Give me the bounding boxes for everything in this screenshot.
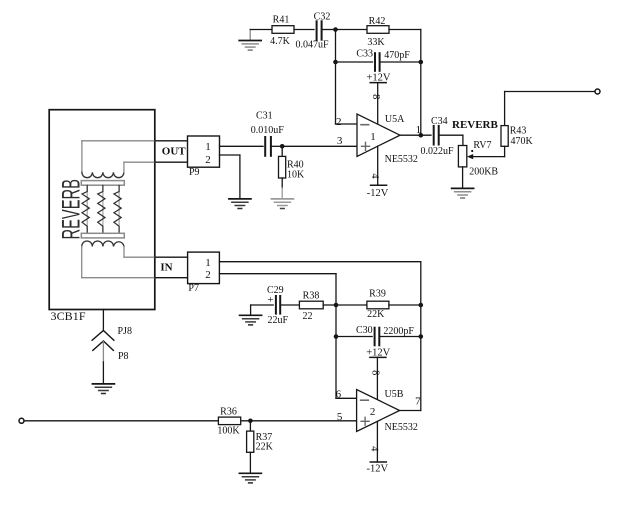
node C30 left [334,334,339,339]
svg-text:R42: R42 [369,16,386,27]
wire C31 to node [272,145,282,147]
resistor R41 [270,15,294,47]
svg-text:NE5532: NE5532 [385,154,418,165]
wire P9 pin2 to ground [220,155,240,199]
wire pin 2 U5A [336,123,358,125]
terminal input [19,418,24,423]
svg-text:R38: R38 [303,290,320,301]
svg-text:6: 6 [336,388,342,400]
svg-text:R36: R36 [220,407,237,418]
wire C34 to RV7 [440,135,463,145]
svg-text:NE5532: NE5532 [385,422,418,433]
ground RV7 [452,188,474,198]
svg-text:4: 4 [369,173,380,179]
tank post 3 [118,185,120,233]
tank output coil L1 [82,141,155,178]
tank spring 3 [114,185,121,233]
capacitor C30 [336,325,421,346]
svg-text:C34: C34 [431,116,448,127]
svg-text:0.010uF: 0.010uF [251,125,284,136]
power -12V U5B [367,421,389,474]
wire tank IN to P7 [155,257,188,278]
svg-text:2: 2 [336,116,342,128]
svg-text:2: 2 [205,269,211,281]
svg-text:C30: C30 [356,325,373,336]
ground P9 pin2 [229,199,251,209]
svg-text:0.047uF: 0.047uF [295,40,329,51]
wire R38 to node [323,304,336,306]
wire left feedback rail [335,30,337,125]
wire input to R36 [24,420,218,422]
ground R37 [239,473,261,483]
svg-text:+12V: +12V [366,72,390,83]
resistor R36 [217,407,240,437]
node right rail / C33 [419,60,424,65]
svg-text:3: 3 [337,135,343,147]
svg-text:100K: 100K [217,425,240,436]
wire R41 to C32 [294,29,314,31]
capacitor C34 [421,116,455,157]
svg-text:8: 8 [370,94,381,99]
wire pin 6 U5B [336,397,357,399]
wire junction to R42 [336,29,368,31]
svg-text:P7: P7 [188,283,199,294]
wire R42 to right rail [389,29,421,31]
svg-text:3CB1F: 3CB1F [51,309,86,323]
svg-text:R41: R41 [273,15,290,26]
ground top-left [239,30,261,51]
connector P7 [188,252,220,294]
svg-text:U5A: U5A [385,114,405,125]
svg-text:1: 1 [370,131,376,143]
capacitor C32 [295,12,335,51]
tank core bar bottom [81,233,124,238]
capacitor C29 [251,285,289,326]
svg-text:2200pF: 2200pF [383,326,414,337]
svg-text:7: 7 [415,396,421,408]
svg-text:+: + [267,294,273,306]
wire to output terminal [505,91,595,93]
svg-text:2: 2 [370,406,376,418]
power -12V U5A [367,146,389,199]
svg-text:22: 22 [303,311,313,322]
resistor R38 [299,290,323,322]
svg-text:REVERB: REVERB [58,179,86,240]
svg-text:R39: R39 [369,289,386,300]
resistor R43 [501,92,534,157]
svg-text:10K: 10K [287,169,305,180]
svg-text:P8: P8 [118,351,129,362]
wire output pin7 U5B [400,410,421,412]
svg-text:470pF: 470pF [384,50,410,61]
tank spring 1 [82,185,89,233]
svg-text:8: 8 [370,370,381,375]
wire tank OUT to P9 [155,141,188,162]
power +12V U5B [366,347,390,399]
tank spring 2 [98,185,105,233]
resistor R40 [279,146,306,199]
node C30 right [419,334,424,339]
potentiometer RV7 [458,140,504,178]
op-amp U5B [357,389,418,433]
connector PJ8 [92,310,132,341]
svg-text:U5B: U5B [385,389,404,400]
terminal output [595,89,600,94]
svg-text:C32: C32 [314,12,331,23]
svg-text:4.7K: 4.7K [270,36,291,47]
wire P9 pin1 to C31 [220,145,264,147]
tank input coil L2 [82,241,155,278]
node R40 junction [280,144,285,149]
capacitor C33 [356,49,410,71]
svg-text:22K: 22K [367,309,385,320]
node: C32/R42 junction [333,27,338,32]
svg-text:P9: P9 [189,167,200,178]
ground C29 [240,315,262,325]
op-amp U5A [357,114,418,165]
svg-text:1: 1 [205,141,211,153]
svg-text:OUT: OUT [162,146,187,158]
svg-text:5: 5 [337,411,343,423]
svg-text:4: 4 [369,446,380,452]
wire C33 right [381,61,421,63]
wire C29 to R38 [281,304,299,306]
wire right feedback rail [420,30,422,136]
tank core bar top [81,181,124,186]
svg-text:C31: C31 [256,111,273,122]
capacitor C31 [251,111,284,156]
resistor R37 [247,421,274,473]
wire pin 3 U5A [282,145,357,147]
svg-text:C33: C33 [356,49,373,60]
node R36/R37 junction [248,419,253,424]
resistor R42 [367,16,389,48]
resistor R39 [367,289,389,321]
tank post 2 [102,185,104,233]
svg-text:0.022uF: 0.022uF [421,146,455,157]
wire P7 pin2 to inverting node rail [219,274,336,399]
svg-text:1: 1 [205,257,211,269]
node left rail / C33 [333,60,338,65]
svg-text:2: 2 [205,154,211,166]
reverb tank 3CB1F box [49,110,155,323]
svg-text:33K: 33K [367,37,385,48]
svg-text:-12V: -12V [367,463,389,474]
connector P8 [93,341,129,384]
power +12V U5A [366,72,390,124]
svg-text:200KB: 200KB [469,167,498,178]
svg-text:22K: 22K [256,442,274,453]
wire pin 5 U5B [241,420,357,422]
wire ground to R41 [250,29,272,31]
wire P7 pin1 to U5B output rail [219,262,420,411]
ground R40 [271,199,293,209]
svg-text:REVERB: REVERB [452,119,499,131]
svg-text:470K: 470K [511,136,534,147]
svg-text:RV7: RV7 [473,140,491,151]
svg-text:IN: IN [160,262,172,274]
node R38/R39 junction [334,303,339,308]
svg-text:-12V: -12V [367,188,389,199]
wire R39 to output rail [389,304,421,306]
connector P9 [188,136,220,178]
wire RV7 to ground [462,167,464,188]
svg-text:22uF: 22uF [268,315,289,326]
svg-text:PJ8: PJ8 [118,326,132,337]
node R39/output rail [419,303,424,308]
ground P8 [92,384,114,394]
node output U5A [419,133,424,138]
wire C33 left [336,61,373,63]
wire output pin1 U5A [400,134,431,136]
wire node to R39 [336,304,367,306]
tank post 1 [86,185,88,233]
